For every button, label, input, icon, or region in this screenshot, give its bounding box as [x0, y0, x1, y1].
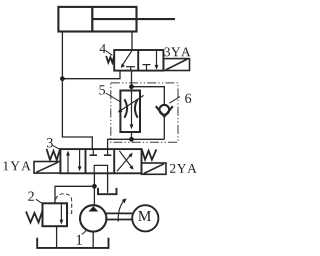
solenoid 3YA box	[164, 59, 190, 71]
rotation direction arrow	[118, 198, 126, 221]
relief valve 2 body	[43, 203, 68, 226]
valve 4 left square diagonal arrow path	[121, 50, 132, 68]
solenoid 2YA box	[142, 163, 167, 174]
motor M circle	[132, 205, 158, 231]
label 3YA	[165, 47, 191, 56]
wire P branch to relief valve 2 inlet	[55, 186, 94, 203]
wire valve3 P port down to pump	[93, 173, 95, 205]
label 1	[77, 235, 82, 245]
label 5	[99, 85, 105, 94]
main tank under pump and relief valve	[37, 238, 108, 248]
wire valve3 T port down to tank	[107, 173, 109, 193]
wire bypass from left line to valve4 bottom-left port	[62, 70, 120, 78]
relief valve 2 pilot dashed line	[56, 194, 72, 213]
valve 3 right square crossed arrows	[117, 151, 134, 171]
node junction P to relief branch	[92, 184, 97, 189]
valve 3 middle square P-T bypass U	[94, 165, 107, 173]
label 1 leader	[82, 230, 87, 234]
wire pump suction to tank	[92, 232, 94, 248]
cylinder C body	[58, 7, 136, 32]
valve 4 body (2-position)	[114, 50, 163, 71]
solenoid 1YA box	[34, 162, 60, 174]
check valve 6 seat	[156, 106, 173, 116]
label 5 leader	[106, 93, 121, 102]
valve 4 spring (left)	[106, 56, 114, 63]
check valve 6 circle	[159, 105, 169, 115]
valve 3 middle square blocked port B	[104, 149, 111, 155]
label 3 leader	[53, 146, 60, 150]
node junction below throttle	[129, 137, 134, 142]
valve 3 middle square blocked port A	[90, 149, 97, 155]
cylinder rod	[92, 18, 175, 20]
label 4 leader	[106, 51, 112, 56]
node junction on left line (bypass tee)	[60, 76, 65, 81]
valve 3 spring left	[47, 148, 61, 160]
valve 3 spring right	[142, 149, 157, 160]
motor shaft double line	[106, 213, 132, 219]
throttle 5 internal flow line with down arrow	[130, 91, 134, 130]
label 2	[28, 192, 34, 201]
valve 3 body (3-position 4-way)	[60, 149, 141, 173]
label 3	[47, 138, 53, 147]
dash-dot enclosure box around 5 and 6	[111, 83, 178, 142]
label 1YA	[4, 161, 31, 170]
throttle 5 restriction arcs	[124, 99, 137, 117]
cylinder piston	[91, 7, 93, 32]
node junction above throttle	[129, 84, 134, 89]
throttle valve 5 body	[120, 91, 140, 133]
label 4	[100, 44, 106, 53]
tank under T port	[98, 188, 117, 194]
wire check valve 6 down to bottom connector	[163, 116, 165, 139]
valve 4 right square blocked port T	[143, 65, 151, 71]
wire relief valve outlet to tank	[56, 226, 58, 247]
valve 3 left square up arrow	[66, 151, 70, 173]
relief valve 2 internal arrow	[60, 203, 64, 224]
wire cylinder left port down to valve3 A port	[62, 32, 92, 150]
label 6 leader	[169, 97, 180, 104]
wire branch to check valve 6	[132, 87, 165, 106]
label 6	[185, 94, 191, 103]
valve 4 left square blocked port T	[126, 67, 135, 71]
wire valve4 bottom-center to throttle (node dot)	[131, 70, 133, 90]
relief valve 2 spring	[26, 211, 42, 222]
wire cylinder right port down to valve4 top port	[131, 32, 133, 51]
valve 3 left square down arrow	[78, 150, 82, 172]
label 2YA	[170, 164, 197, 173]
wire bottom connector of 5/6 to valve3 B port	[108, 132, 165, 150]
throttle 5 adjustability diagonal arrow	[118, 95, 144, 112]
motor M letter	[138, 211, 151, 221]
label 2 leader	[36, 199, 42, 203]
pump 1 outlet triangle	[89, 206, 99, 211]
valve 4 right square down-arrow path	[155, 50, 159, 70]
pump 1 circle	[80, 205, 106, 231]
